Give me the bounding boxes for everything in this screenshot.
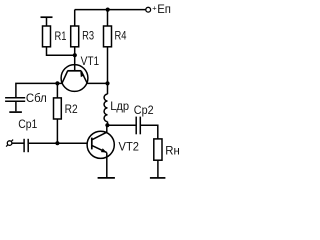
svg-text:R1: R1 [55, 30, 67, 43]
svg-text:R3: R3 [82, 30, 94, 43]
svg-text:Сбл: Сбл [26, 92, 47, 105]
svg-text:R2: R2 [65, 104, 78, 117]
svg-text:Ср1: Ср1 [18, 119, 37, 132]
svg-text:+: + [152, 4, 157, 13]
svg-text:Еп: Еп [157, 3, 171, 16]
svg-text:Rн: Rн [165, 144, 180, 157]
svg-text:VT1: VT1 [81, 55, 99, 68]
svg-text:R4: R4 [115, 29, 127, 42]
svg-text:VT2: VT2 [119, 141, 139, 153]
svg-text:Lдр: Lдр [110, 101, 129, 113]
svg-text:Ср2: Ср2 [134, 105, 154, 118]
